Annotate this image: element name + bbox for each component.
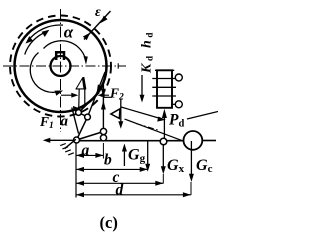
svg-text:Δ: Δ [75,74,88,95]
box top cap line [155,69,174,71]
pivot support hatching [60,144,74,155]
winding line 2 [152,86,176,88]
Gx extension to c line [162,174,164,184]
joint J3 [100,128,106,134]
F2 vertical down arrow [120,99,122,126]
left-bottom arc-arrow A5 (head pointing right at bottom) [30,53,60,93]
band end rod (vertical) from rim to joint J3 [102,82,104,129]
svg-text:Gc: Gc [196,157,213,175]
svg-text:Kd hd: Kd hd [140,30,155,74]
hub circle [51,56,71,76]
wheel horizontal centerline [3,65,126,67]
svg-text:F2: F2 [109,85,124,102]
link pivot to J2 [77,117,88,140]
delta dimension line left arrow [61,94,76,96]
tick right of rod [103,96,112,98]
winding line 3 [152,95,176,97]
svg-text:d: d [116,181,124,198]
joint J5 [160,138,167,145]
alpha arc-arrow A4 (cw, long head pointing down near centerline) [44,41,86,59]
lever right of counterweight [202,140,216,142]
rotation arc-arrow A1 (ccw, head lower-left) [27,25,63,41]
svg-text:Pd: Pd [169,112,184,130]
wheel vertical centerline [60,9,62,132]
dimension c line [76,182,163,184]
delta dimension line right arrow [100,94,109,96]
hollow triangle pointer [111,109,120,119]
svg-text:b: b [104,151,112,168]
pivot joint [74,137,80,143]
dimension a line [76,154,103,156]
link pivot to J3 [77,132,104,141]
counterweight wheel circle [184,131,203,150]
link J1 to J2 [79,113,88,118]
counterweight hanger line + Gc arrow [190,141,192,176]
svg-text:a: a [82,142,90,159]
electromagnet box [157,70,172,108]
wheel rim (solid outer circle) [15,20,107,112]
F2 tension arrowhead on band diagonal 2 [97,84,104,92]
winding line 1 [152,78,175,80]
datum vertical line below pivot [75,143,77,198]
svg-text:Gg: Gg [128,146,146,164]
Gg down arrow [147,141,149,165]
joint J2 [85,114,91,120]
delta extension line A (to J1) [78,89,81,111]
svg-text:Gx: Gx [167,157,185,175]
svg-text:(c): (c) [100,213,118,232]
lever main line [77,140,184,142]
Kd hd down arrow [141,75,143,97]
link line D2 to counterweight [125,119,185,141]
dimension b line [76,168,148,170]
leader line D1 to pushrod [121,107,162,119]
svg-text:a: a [61,114,69,130]
Gg up arrow [123,150,125,166]
pushrod from lever joint J5 up to magnet with Pd up arrow [163,118,165,142]
F1 force arrow (left) at pivot [46,139,77,141]
brake band (dashed outer circle) [10,16,111,117]
svg-text:ε: ε [95,5,101,20]
terminal circle lower [175,101,182,108]
tick on centerline right end [117,63,119,68]
extension vertical at a right end [102,143,104,159]
small arrowhead at band end top [73,106,81,112]
delta extension line B [84,89,86,107]
rotation arc-arrow A2 (cw, head upper-right) [25,32,47,55]
dash-dot segment between links [136,124,158,131]
Gx down arrow at J5 [162,144,164,168]
svg-text:α: α [64,22,74,41]
joint J4 [100,135,106,141]
epsilon gap arrow (inner head) [83,33,90,41]
keyway on hub [56,52,64,60]
terminal circle upper [175,74,182,81]
leader to right edge [187,112,218,120]
band diagonal 2 (F2 tangent line) [88,72,106,117]
dimension d line [76,194,191,196]
stroke gap arrows on rod: down head [101,89,106,97]
band diagonal 1 into J1 [79,93,100,113]
stroke gap arrows on rod: up head [101,100,106,109]
lower stub to terminal [172,103,175,105]
pivot support diagonal [65,139,76,148]
joint J1 [76,110,82,116]
band lower-left end into pivot [72,108,79,134]
Gc extension to d line [190,182,192,195]
epsilon gap arrow (outer head) [84,11,111,40]
